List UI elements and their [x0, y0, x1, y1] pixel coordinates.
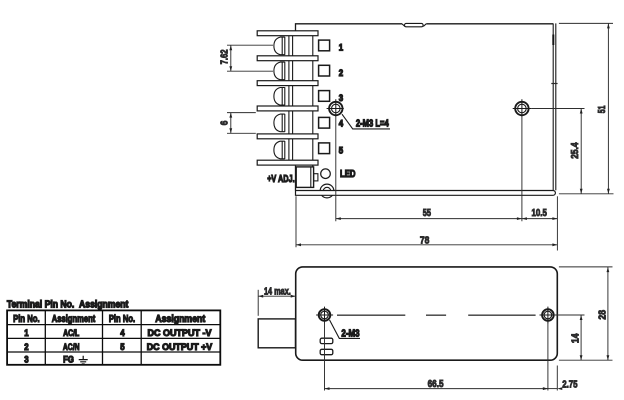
- mounting hole H2 top view: [513, 99, 531, 117]
- svg-text:Assignment: Assignment: [52, 314, 96, 325]
- svg-text:14: 14: [571, 333, 582, 343]
- terminal screw 4: [274, 114, 285, 132]
- svg-text:Pin No.: Pin No.: [13, 314, 40, 325]
- terminal block bar 3: [257, 81, 318, 86]
- mounting hole M3 right side view: [540, 307, 557, 324]
- svg-text:2: 2: [24, 342, 28, 352]
- dimension 10.5: [522, 196, 558, 250]
- terminal pin assignment table: [7, 299, 220, 365]
- svg-text:DC OUTPUT +V: DC OUTPUT +V: [147, 342, 213, 352]
- svg-text:AC/L: AC/L: [63, 328, 79, 338]
- svg-text:AC/N: AC/N: [63, 342, 80, 352]
- svg-text:1: 1: [339, 43, 343, 53]
- terminal block bar 6: [257, 160, 318, 165]
- case right edge seam tick: [552, 35, 554, 46]
- dimension 55: [336, 118, 522, 222]
- svg-text:Assignment: Assignment: [155, 314, 206, 325]
- terminal block bar 5: [257, 134, 318, 139]
- svg-text:LED: LED: [340, 169, 356, 180]
- dimension 28: [559, 267, 613, 360]
- pin square 4: [319, 117, 330, 128]
- mounting hole H1 top view: [327, 99, 344, 117]
- pin square 2: [319, 65, 330, 76]
- svg-text:DC OUTPUT -V: DC OUTPUT -V: [148, 328, 213, 338]
- terminal screw 3: [274, 87, 285, 105]
- label 2-M3 leader: [330, 320, 361, 339]
- LED indicator: [321, 169, 331, 179]
- svg-text:2: 2: [339, 68, 343, 78]
- terminal screw 2: [274, 62, 285, 80]
- top cover latch notch: [402, 23, 426, 26]
- svg-text:FG: FG: [63, 355, 74, 365]
- svg-text:1: 1: [24, 328, 28, 338]
- output bushing: [320, 184, 334, 198]
- svg-text:6: 6: [219, 120, 230, 125]
- svg-text:66.5: 66.5: [428, 379, 444, 390]
- pin square 1: [319, 40, 330, 51]
- dimension 51: [559, 23, 614, 193]
- svg-text:10.5: 10.5: [532, 208, 548, 219]
- side view case: [296, 267, 558, 360]
- terminal screw 5: [274, 141, 285, 159]
- center line: [337, 314, 536, 316]
- FG ground symbol: [79, 356, 88, 364]
- dimension 6: [219, 113, 256, 134]
- svg-text:4: 4: [120, 328, 125, 338]
- svg-text:4: 4: [339, 118, 344, 128]
- dimension 78: [296, 196, 557, 247]
- pin square 3: [319, 91, 330, 102]
- svg-text:Terminal Pin No. Assignment: Terminal Pin No. Assignment: [7, 299, 129, 310]
- vent slot 2: [320, 349, 333, 354]
- terminal block bar 4: [257, 106, 318, 111]
- dimension 14 right: [554, 315, 613, 360]
- dimension 25.4: [531, 109, 584, 194]
- svg-text:3: 3: [339, 93, 343, 103]
- svg-text:55: 55: [423, 208, 432, 219]
- input connector block: [258, 319, 295, 348]
- svg-text:2-M3: 2-M3: [341, 328, 360, 339]
- top view case outline: [296, 23, 556, 190]
- svg-text:7.62: 7.62: [219, 49, 230, 64]
- terminal block body lines: [289, 31, 313, 167]
- svg-text:+V ADJ.: +V ADJ.: [267, 174, 295, 185]
- svg-text:51: 51: [597, 105, 608, 113]
- svg-text:78: 78: [420, 235, 430, 246]
- svg-text:2-M3 L=4: 2-M3 L=4: [356, 118, 389, 129]
- dimension 14 max: [258, 287, 296, 316]
- svg-text:Pin No.: Pin No.: [109, 314, 135, 325]
- potentiometer +V ADJ: [296, 167, 318, 188]
- svg-text:5: 5: [339, 145, 343, 155]
- svg-text:28: 28: [598, 310, 609, 320]
- svg-text:2.75: 2.75: [562, 380, 578, 391]
- terminal block bar 2: [257, 56, 318, 61]
- svg-text:25.4: 25.4: [570, 142, 581, 159]
- svg-text:3: 3: [24, 355, 28, 365]
- svg-text:5: 5: [120, 342, 124, 352]
- terminal block bar 1: [257, 31, 318, 36]
- bottom flange: [296, 191, 556, 196]
- dimension 66.5: [325, 322, 548, 391]
- pin square 5: [319, 143, 330, 154]
- label 2-M3 L=4 leader: [342, 114, 390, 129]
- dimension 7.62: [219, 45, 273, 71]
- terminal screw 1: [274, 37, 285, 55]
- svg-text:14 max.: 14 max.: [264, 287, 291, 298]
- case right edge cross tick: [551, 83, 557, 85]
- dimension 2.75: [543, 366, 578, 391]
- mounting hole M3 left side view: [316, 307, 333, 324]
- vent slot 1: [320, 338, 333, 343]
